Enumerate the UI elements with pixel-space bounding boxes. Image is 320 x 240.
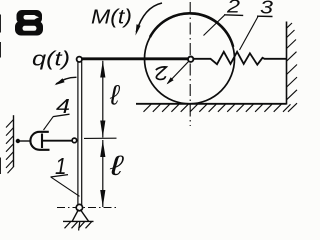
label 1 with shelf and leader bbox=[51, 153, 80, 196]
damper 4 cylinder cup bbox=[30, 132, 49, 150]
radius arrow r bbox=[167, 62, 189, 85]
hinge pin on rod at damper bbox=[72, 138, 77, 143]
svg-text:3: 3 bbox=[260, 0, 274, 18]
svg-text:ℓ: ℓ bbox=[109, 150, 126, 181]
pivot support triangle bbox=[63, 210, 94, 222]
scan edge artifacts left border bbox=[0, 15, 2, 175]
mid tick line at damper level bbox=[84, 137, 117, 139]
damper 4 pin at wall bbox=[16, 139, 20, 143]
bottom pivot hinge bbox=[76, 204, 82, 210]
damper 4 piston rod bbox=[42, 140, 72, 142]
dimension line upper l bbox=[100, 61, 105, 138]
radius label r bbox=[156, 67, 167, 80]
figure number 8 bbox=[15, 10, 43, 36]
left wall hatching bbox=[6, 120, 14, 174]
top hinge O bbox=[77, 57, 82, 62]
damper 4 piston bbox=[41, 134, 43, 149]
dimension line lower l bbox=[100, 140, 105, 207]
ground hatching bbox=[144, 104, 291, 112]
pivot support hatching bbox=[65, 222, 92, 231]
disk 2 thick top arc bbox=[150, 13, 233, 47]
horizontal rod (crank) from hinge to disk center bbox=[81, 57, 188, 60]
label 3 with shelf and leader bbox=[240, 0, 274, 50]
spring 3 zigzag bbox=[194, 52, 287, 65]
label 2 with shelf and leader bbox=[204, 0, 244, 36]
svg-text:2: 2 bbox=[226, 0, 241, 17]
right wall hatching bbox=[287, 23, 298, 112]
left wall line bbox=[13, 115, 15, 167]
ground line under disk bbox=[136, 103, 287, 105]
disk 2 (circle) bbox=[145, 14, 235, 104]
right wall line bbox=[286, 22, 288, 105]
damper 4 link from pin bbox=[20, 140, 32, 142]
link 1 vertical rod (double line) bbox=[78, 62, 82, 206]
vertical centerline of disk bbox=[189, 2, 191, 126]
moment arrow M(t) bbox=[136, 3, 163, 36]
svg-text:ℓ: ℓ bbox=[109, 80, 121, 111]
svg-text:M(t): M(t) bbox=[91, 7, 132, 29]
coordinate arrow q(t) bbox=[55, 77, 77, 85]
hub at disk center bbox=[188, 57, 193, 62]
label 4 with shelf and leader bbox=[44, 95, 71, 130]
bottom centerline through pivot bbox=[57, 207, 117, 209]
svg-text:q(t): q(t) bbox=[32, 49, 70, 71]
